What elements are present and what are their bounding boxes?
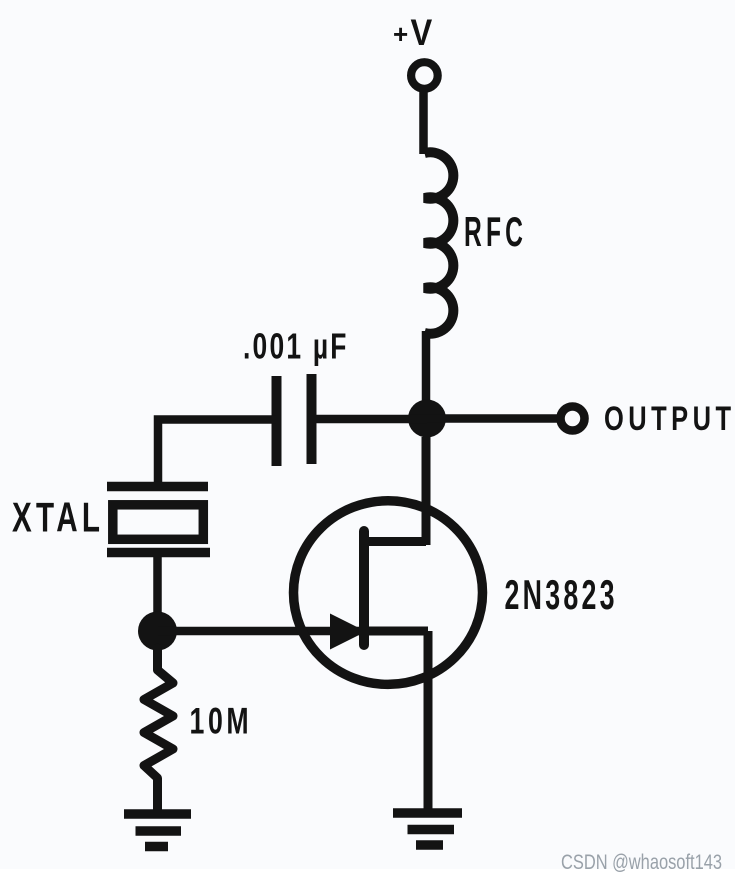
+V supply terminal bbox=[411, 62, 438, 89]
label +V bbox=[393, 12, 432, 53]
source lead inside bbox=[364, 627, 428, 636]
wire: gate node to JFET gate bbox=[158, 627, 363, 636]
node: drain/output junction bbox=[408, 400, 446, 438]
wire: drain lead up to output node bbox=[422, 437, 431, 545]
ground (left, resistor) bbox=[124, 814, 191, 847]
wire: XTAL bottom to gate node bbox=[153, 556, 162, 625]
label 10M bbox=[190, 700, 253, 741]
svg-text:RFC: RFC bbox=[464, 210, 527, 256]
svg-text:XTAL: XTAL bbox=[12, 494, 104, 541]
resistor R1 10M bbox=[144, 648, 173, 812]
wire: capacitor left plate to XTAL top bbox=[158, 420, 277, 487]
wire: RFC bottom to output node bbox=[422, 331, 431, 418]
svg-text:.001 µF: .001 µF bbox=[243, 327, 349, 367]
svg-text:2N3823: 2N3823 bbox=[505, 572, 618, 618]
svg-text:+: + bbox=[393, 19, 408, 49]
svg-text:OUTPUT: OUTPUT bbox=[604, 400, 735, 437]
node: gate junction bbox=[138, 612, 177, 651]
watermark CSDN bbox=[561, 851, 722, 874]
channel bar bbox=[359, 531, 369, 645]
svg-text:CSDN @whaosoft143: CSDN @whaosoft143 bbox=[561, 851, 722, 874]
label 2N3823 bbox=[505, 572, 618, 618]
drain lead inside bbox=[361, 537, 426, 546]
label OUTPUT bbox=[604, 400, 735, 437]
transistor Q1 2N3823 (JFET) bbox=[294, 501, 483, 685]
capacitor C1 .001uF : right plate bbox=[307, 374, 317, 464]
wire: source lead down to ground bbox=[424, 631, 433, 812]
inductor RFC bbox=[425, 152, 454, 333]
gate arrowhead bbox=[330, 614, 366, 650]
label .001 uF bbox=[243, 327, 349, 367]
svg-text:10M: 10M bbox=[190, 700, 253, 741]
capacitor C1 .001uF : left plate bbox=[272, 376, 282, 466]
wire: node to capacitor right plate bbox=[312, 415, 427, 424]
wire: node to output terminal bbox=[427, 414, 557, 423]
label XTAL bbox=[12, 494, 104, 541]
bottom white strip bbox=[0, 869, 735, 878]
wire: +V terminal to RFC top bbox=[419, 89, 428, 154]
output terminal bbox=[561, 407, 585, 431]
crystal XTAL bbox=[107, 487, 210, 553]
label RFC bbox=[464, 210, 527, 256]
svg-text:V: V bbox=[411, 12, 433, 53]
ground (right, source) bbox=[393, 813, 462, 845]
